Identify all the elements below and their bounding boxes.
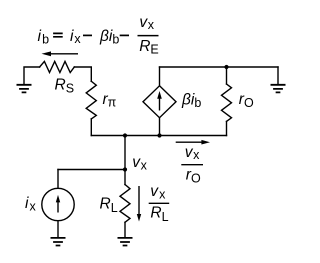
svg-text:RL: RL xyxy=(150,205,168,224)
wire: r_pi down to bottom node xyxy=(90,119,92,136)
junction dot (bottom node left) xyxy=(123,133,127,137)
wire: diamond bottom to node xyxy=(159,118,161,136)
svg-text:βib: βib xyxy=(181,91,201,110)
wire: right ground drop xyxy=(277,67,279,84)
resistor r_pi xyxy=(86,81,96,119)
wire: left ground to RS xyxy=(24,67,40,85)
svg-text:rO: rO xyxy=(239,91,254,110)
svg-text:vx: vx xyxy=(150,183,166,201)
junction dot (bottom node, diamond) xyxy=(157,133,161,137)
svg-text:ix: ix xyxy=(70,28,81,46)
resistor RL xyxy=(120,185,130,223)
wire: r_o to bottom node xyxy=(226,121,228,135)
svg-text:βib: βib xyxy=(99,28,119,47)
fraction vx/RL xyxy=(149,183,170,224)
wire: ix circle to ground xyxy=(57,221,59,238)
fraction vx/ro xyxy=(181,144,203,186)
current source ix circle xyxy=(42,188,74,220)
svg-text:ib: ib xyxy=(38,28,50,47)
resistor RS xyxy=(40,61,75,72)
wire: diamond top to top wire xyxy=(159,67,161,86)
wire: RS to corner and down to r_pi xyxy=(74,67,91,81)
wire: bottom node horizontal xyxy=(91,135,226,137)
svg-text:RL: RL xyxy=(100,196,118,215)
wire: top wire down to r_o xyxy=(226,67,228,84)
ground (top right) xyxy=(271,85,286,93)
resistor r_o xyxy=(222,84,232,121)
wire: vx node down to RL xyxy=(124,170,126,185)
wire: ix source top xyxy=(58,169,125,171)
arrow vx/ro (points right) xyxy=(176,140,210,145)
equation ib = ix - beta ib - vx/RE xyxy=(38,14,159,57)
svg-text:vx: vx xyxy=(185,144,200,162)
arrow inside diamond xyxy=(157,91,162,111)
arrow vx/RL (points down) xyxy=(137,186,141,222)
svg-text:ix: ix xyxy=(25,195,37,213)
wire: vx node drop xyxy=(124,136,126,170)
dependent source diamond xyxy=(143,86,176,118)
svg-text:rO: rO xyxy=(186,167,201,186)
junction dot (top, r_o tap) xyxy=(224,65,228,69)
ground (below ix) xyxy=(51,238,66,246)
svg-text:vx: vx xyxy=(132,154,147,173)
svg-text:RS: RS xyxy=(55,77,75,96)
svg-text:RE: RE xyxy=(139,38,159,57)
wire: top right horizontal xyxy=(160,66,279,68)
wire: down to ix circle xyxy=(57,170,59,189)
arrow inside ix circle xyxy=(56,195,60,213)
wire: RL to ground xyxy=(124,222,126,237)
arrow ib (left, above RS) xyxy=(42,51,79,56)
svg-text:rπ: rπ xyxy=(103,91,117,110)
junction dot (vx / ix junction) xyxy=(123,167,127,171)
svg-text:vx: vx xyxy=(139,14,154,32)
ground (top left) xyxy=(17,85,32,93)
ground (below RL) xyxy=(118,238,133,246)
